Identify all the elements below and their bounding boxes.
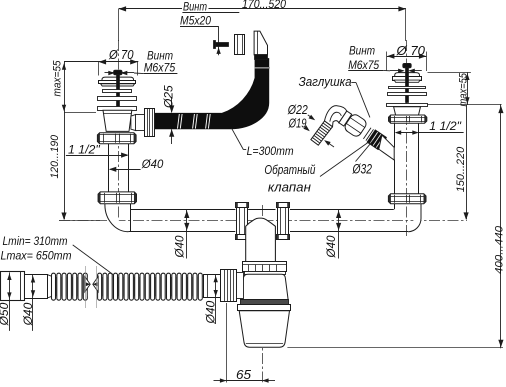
- dimension 1 1/2 inch right: [395, 119, 464, 135]
- left elbow nut: [98, 192, 136, 204]
- svg-text:Ø25: Ø25: [162, 85, 176, 109]
- svg-text:400...440: 400...440: [494, 225, 506, 274]
- dimension 1 1/2 inch left: [66, 143, 129, 158]
- gasket rings: [363, 128, 373, 141]
- svg-text:Ø40: Ø40: [325, 235, 338, 258]
- dimension 170...520: [119, 0, 406, 12]
- dimension 150...220: [428, 105, 502, 220]
- corrugated hose section B: [98, 273, 203, 300]
- check valve outlet cone: [379, 135, 394, 160]
- svg-text:Lmin= 310mm: Lmin= 310mm: [3, 234, 68, 248]
- dimension Ø25 hose: [162, 85, 176, 144]
- right drain tailpipe: [395, 123, 419, 194]
- svg-text:Винт: Винт: [183, 0, 207, 14]
- right drain strainer: [393, 73, 422, 83]
- flex pipe end cuff Ø50: [1, 272, 25, 301]
- wire right drain centerline: [406, 40, 408, 236]
- left drain locknut: [97, 133, 136, 144]
- wire ext left drain to top dim: [118, 9, 120, 41]
- label L=300mm: [232, 128, 294, 158]
- svg-text:Винт: Винт: [349, 45, 375, 58]
- flex pipe neck Ø40: [25, 275, 52, 299]
- svg-text:170...520: 170...520: [242, 0, 286, 11]
- svg-text:Обратный: Обратный: [264, 163, 315, 177]
- svg-text:150...220: 150...220: [455, 146, 467, 192]
- dimension max=55 left: [52, 60, 97, 113]
- svg-text:65: 65: [236, 368, 251, 382]
- left drain outlet nut: [131, 109, 155, 137]
- label screw M6x75 right: [348, 45, 422, 73]
- right elbow nut: [388, 194, 426, 204]
- wire ext right drain to top dim: [405, 9, 407, 41]
- pipe break marks: [85, 266, 98, 308]
- check valve striped body: [367, 130, 387, 150]
- hose barb Ø22/Ø19: [311, 121, 333, 145]
- dimension Ø70 right: [387, 43, 427, 71]
- right drain screw M6x75: [403, 63, 411, 102]
- dimension Ø70 left: [64, 47, 138, 75]
- label Lmin Lmax: [1, 234, 114, 274]
- label Zaglushka (plug): [299, 75, 370, 117]
- svg-text:Заглушка: Заглушка: [299, 75, 352, 89]
- dimension Ø40 left drain: [109, 157, 164, 172]
- right elbow: [395, 204, 422, 232]
- dimension Ø50: [0, 272, 12, 331]
- check valve barrel nut: [343, 113, 368, 139]
- wire horizontal pipe centerline: [59, 220, 467, 222]
- dimension 400...440: [494, 104, 506, 348]
- union nut left of tee: [236, 203, 249, 240]
- trap side inlet nut: [221, 270, 244, 302]
- svg-text:Ø40: Ø40: [141, 157, 164, 171]
- svg-text:max=55: max=55: [52, 60, 64, 97]
- label Ø19: [288, 117, 310, 132]
- dimension max=55 right: [428, 72, 471, 106]
- corrugated hose section A: [52, 273, 88, 300]
- svg-text:Ø40: Ø40: [21, 302, 35, 326]
- hose clip: [235, 34, 245, 55]
- check valve elbow: [325, 106, 347, 127]
- trap upper body: [241, 272, 289, 300]
- svg-text:М6х75: М6х75: [144, 62, 176, 75]
- svg-text:120...190: 120...190: [49, 134, 61, 178]
- left drain strainer: [99, 77, 136, 86]
- label screw M5x20: [180, 0, 239, 55]
- svg-text:клапан: клапан: [268, 181, 311, 195]
- right drain locknut: [389, 115, 427, 123]
- trap collar ring: [238, 305, 291, 311]
- left elbow: [105, 204, 131, 232]
- svg-text:max=55: max=55: [457, 73, 469, 107]
- left drain washers: [98, 90, 137, 111]
- svg-text:Ø32: Ø32: [352, 162, 373, 177]
- trap top nut: [242, 262, 287, 272]
- label screw M6x75 left: [105, 49, 178, 75]
- dimension 65: [214, 303, 276, 383]
- wire horizontal waste pipe: [128, 210, 408, 232]
- svg-text:1 1/2": 1 1/2": [429, 119, 461, 133]
- svg-text:Ø50: Ø50: [0, 302, 11, 326]
- right drain washers: [387, 87, 428, 107]
- check valve elbow cuff: [339, 111, 352, 126]
- label Ø32: [324, 140, 373, 176]
- tee to trap: [246, 218, 276, 262]
- label Ø22: [287, 103, 315, 120]
- hose top fitting: [254, 31, 267, 59]
- left drain body: [103, 110, 132, 131]
- label check valve (Obratny klapan): [264, 142, 368, 195]
- right drain body: [394, 107, 421, 115]
- wire left drain centerline: [118, 40, 120, 222]
- svg-text:Ø22: Ø22: [287, 103, 308, 117]
- union nut right of tee: [277, 203, 290, 240]
- overflow hose L=300mm: [155, 59, 270, 129]
- dimension Ø40 pipe right segment: [325, 209, 341, 258]
- dimension Ø40 flex end: [21, 275, 35, 331]
- left drain tailpipe: [109, 144, 129, 192]
- svg-text:М5х20: М5х20: [180, 13, 211, 27]
- svg-text:Lmax= 650mm: Lmax= 650mm: [1, 249, 72, 263]
- svg-text:1 1/2": 1 1/2": [68, 143, 100, 157]
- wire trap bottom extension: [287, 347, 503, 349]
- trap joint band: [241, 300, 289, 305]
- left drain screw M6x75: [114, 70, 122, 110]
- svg-text:Ø40: Ø40: [173, 235, 186, 258]
- svg-text:Винт: Винт: [147, 49, 173, 62]
- dimension 120...190: [49, 112, 67, 220]
- wire pipe centerline extension left: [59, 220, 100, 222]
- wire trap centerline: [262, 205, 264, 382]
- trap cup: [239, 311, 289, 348]
- screw M5x20: [214, 41, 229, 49]
- flex pipe outlet end: [204, 275, 221, 298]
- dimension Ø40 pipe left segment: [173, 209, 189, 258]
- svg-text:L=300mm: L=300mm: [247, 144, 294, 158]
- svg-text:Ø40: Ø40: [204, 300, 218, 324]
- dimension Ø40 at trap inlet: [204, 275, 218, 325]
